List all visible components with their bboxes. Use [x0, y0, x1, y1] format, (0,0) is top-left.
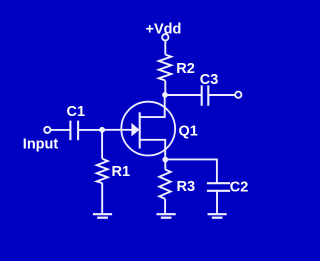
svg-text:Q1: Q1 — [179, 124, 198, 140]
svg-text:R2: R2 — [176, 61, 195, 77]
svg-text:+Vdd: +Vdd — [146, 22, 182, 38]
svg-text:C2: C2 — [230, 180, 249, 196]
svg-text:R3: R3 — [177, 179, 196, 195]
svg-text:C1: C1 — [67, 104, 86, 120]
svg-text:R1: R1 — [112, 164, 131, 180]
svg-text:Input: Input — [23, 137, 59, 153]
svg-text:C3: C3 — [200, 72, 219, 88]
